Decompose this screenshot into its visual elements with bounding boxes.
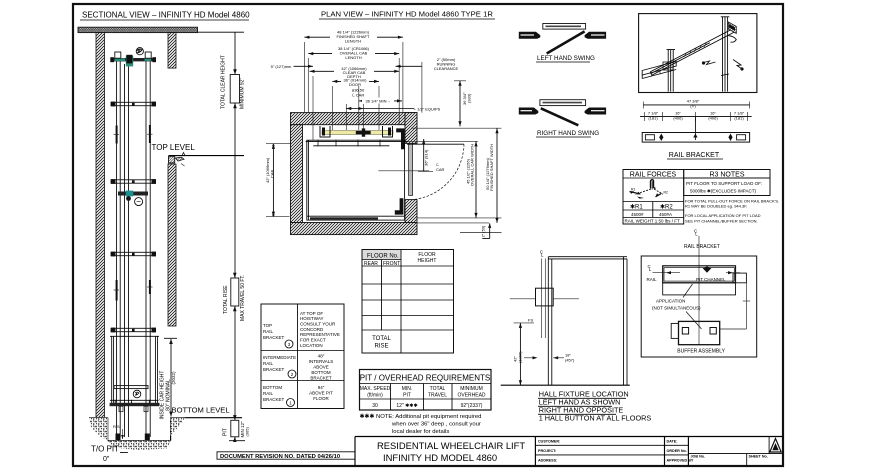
svg-text:PROJECT:: PROJECT: [538, 449, 556, 453]
svg-text:BOTTOM: BOTTOM [263, 385, 282, 390]
svg-text:BRACKET: BRACKET [263, 367, 285, 372]
svg-text:(933): (933) [467, 93, 472, 103]
svg-text:ABOVE PIT: ABOVE PIT [309, 391, 333, 396]
svg-text:TOP LEVEL: TOP LEVEL [152, 143, 196, 152]
svg-text:(181): (181) [734, 116, 744, 121]
svg-text:(ft/min): (ft/min) [367, 393, 383, 399]
svg-text:PIT FLOOR TO SUPPORT LOAD OF:: PIT FLOOR TO SUPPORT LOAD OF: [686, 181, 762, 186]
svg-text:DOOR: DOOR [349, 82, 361, 87]
svg-text:(406): (406) [673, 116, 683, 121]
svg-text:R1: R1 [631, 188, 636, 192]
svg-text:FLOOR: FLOOR [313, 396, 329, 401]
svg-text:BRACKET: BRACKET [263, 397, 285, 402]
svg-text:TOTAL RISE: TOTAL RISE [223, 285, 229, 314]
svg-text:30: 30 [372, 403, 378, 409]
svg-text:DOCUMENT REVISION NO. DATED: DOCUMENT REVISION NO. DATED 04/26/10 [220, 454, 340, 460]
svg-text:R2: R2 [664, 191, 669, 195]
svg-text:TRAVEL: TRAVEL [428, 393, 447, 399]
svg-text:RAIL FORCES: RAIL FORCES [630, 172, 677, 179]
svg-text:DATE:: DATE: [667, 440, 678, 444]
svg-text:REAR: REAR [364, 261, 378, 267]
svg-text:ADDRESS:: ADDRESS: [538, 459, 557, 463]
svg-text:TOTAL: TOTAL [372, 336, 391, 342]
svg-text:OVERALL CAR WIDTH: OVERALL CAR WIDTH [470, 144, 475, 186]
svg-text:MAX. SPEED: MAX. SPEED [360, 386, 391, 392]
svg-text:PIT: PIT [222, 428, 228, 436]
svg-text:SECTIONAL VIEW – INFINITY: SECTIONAL VIEW – INFINITY HD Model 4860 [82, 11, 250, 20]
svg-text:R1 MAY BE DOUBLED eg. 944.3F: R1 MAY BE DOUBLED eg. 944.3F. [685, 204, 747, 209]
svg-text:5000lbs ✱(EXCLUDES IMPACT): 5000lbs ✱(EXCLUDES IMPACT) [690, 189, 756, 194]
svg-text:CUSTOMER:: CUSTOMER: [538, 440, 560, 444]
svg-text:450#A: 450#A [659, 212, 672, 217]
svg-text:INTERVALS: INTERVALS [309, 359, 334, 364]
svg-text:T/O PIT: T/O PIT [91, 445, 119, 454]
svg-text:RAIL BRACKET: RAIL BRACKET [669, 152, 720, 159]
svg-text:✱✱✱ NOTE: Additional pit e: ✱✱✱ NOTE: Additional pit equipment requi… [360, 413, 482, 420]
svg-text:FINISHED SHAFT WIDTH: FINISHED SHAFT WIDTH [489, 144, 494, 191]
svg-text:BOTTOM LEVEL: BOTTOM LEVEL [172, 406, 230, 415]
svg-text:CONSULT YOUR: CONSULT YOUR [300, 321, 336, 326]
svg-text:RAIL: RAIL [263, 329, 274, 334]
svg-text:when over 36" deep , consu: when over 36" deep , consult your [391, 422, 481, 428]
svg-text:RAIL BRACKET: RAIL BRACKET [684, 244, 720, 250]
svg-text:REPRESENTATIVE: REPRESENTATIVE [300, 332, 340, 337]
svg-text:INFINITY HD MODEL 4860: INFINITY HD MODEL 4860 [383, 452, 497, 463]
svg-text:RAIL: RAIL [647, 277, 658, 282]
svg-text:(457): (457) [565, 358, 575, 363]
svg-text:APPROVED BY: APPROVED BY [667, 459, 694, 463]
svg-text:1 HALL BUTTON AT ALL FLOO: 1 HALL BUTTON AT ALL FLOORS [539, 414, 652, 423]
svg-text:HEIGHT: HEIGHT [418, 258, 437, 264]
svg-text:FOR EXACT: FOR EXACT [300, 338, 326, 343]
svg-text:MIN.: MIN. [402, 386, 413, 392]
svg-text:HOISTWAY: HOISTWAY [300, 316, 324, 321]
svg-text:36 1/4" MIN→: 36 1/4" MIN→ [366, 98, 391, 103]
svg-text:FLOOR No.: FLOOR No. [367, 254, 399, 260]
svg-text:RAIL WEIGHT 1 50 lbs / FT: RAIL WEIGHT 1 50 lbs / FT [625, 219, 681, 224]
svg-text:4500#: 4500# [631, 212, 644, 217]
svg-text:RISE: RISE [374, 344, 388, 350]
svg-text:APPLICATION: APPLICATION [656, 299, 685, 304]
svg-text:12" ✱✱✱: 12" ✱✱✱ [396, 403, 417, 409]
svg-text:ABOVE: ABOVE [313, 365, 329, 370]
svg-text:48": 48" [318, 354, 325, 359]
svg-text:CLEARANCE: CLEARANCE [434, 66, 459, 71]
svg-text:BOTTOM: BOTTOM [311, 370, 330, 375]
svg-text:BUFFER ASSEMBLY: BUFFER ASSEMBLY [677, 349, 725, 355]
svg-text:(2032): (2032) [171, 371, 176, 385]
svg-text:TOP: TOP [263, 323, 272, 328]
svg-text:JOB No.: JOB No. [691, 455, 706, 459]
svg-text:TOTAL CLEAR HEIGHT: TOTAL CLEAR HEIGHT [221, 55, 227, 109]
svg-text:SHEET No.: SHEET No. [749, 455, 768, 459]
svg-text:5" (127)mm: 5" (127)mm [271, 64, 292, 69]
svg-text:92"(2337): 92"(2337) [461, 403, 483, 409]
svg-text:(305): (305) [245, 426, 250, 436]
svg-text:RIGHT HAND SWING: RIGHT HAND SWING [537, 130, 599, 137]
svg-text:FS: FS [528, 318, 533, 323]
svg-text:LOCATION: LOCATION [300, 343, 323, 348]
svg-text:MINIMUM: MINIMUM [460, 386, 483, 392]
svg-text:CAR: CAR [436, 167, 445, 172]
svg-text:CAB: CAB [270, 169, 275, 178]
svg-text:(Y): (Y) [690, 104, 696, 109]
svg-text:(181): (181) [648, 116, 658, 121]
svg-text:PIT: PIT [403, 393, 411, 399]
svg-text:(1066): (1066) [518, 351, 523, 363]
svg-text:LENGTH: LENGTH [345, 39, 361, 44]
svg-text:CONCORD: CONCORD [300, 327, 324, 332]
svg-text:PIT CHANNEL: PIT CHANNEL [696, 277, 726, 282]
svg-text:ORDER No.: ORDER No. [667, 449, 687, 453]
svg-text:OVERHEAD: OVERHEAD [457, 393, 485, 399]
svg-text:FOR LOCAL APPLICATION OF PIT L: FOR LOCAL APPLICATION OF PIT LOAD [685, 213, 761, 218]
svg-text:LEFT HAND SWING: LEFT HAND SWING [537, 55, 595, 62]
svg-text:INTERMEDIATE: INTERMEDIATE [263, 355, 296, 360]
svg-text:PIT / OVERHEAD REQUIREMENTS: PIT / OVERHEAD REQUIREMENTS [360, 374, 491, 383]
svg-text:SEE PIT CHANNEL/BUFFER SECTION: SEE PIT CHANNEL/BUFFER SECTION. [685, 219, 758, 224]
svg-text:(NOT SIMULTANEOUS): (NOT SIMULTANEOUS) [652, 306, 701, 311]
svg-text:MAX TRAVEL 50 FT.: MAX TRAVEL 50 FT. [240, 275, 246, 321]
svg-text:ℒ CAR: ℒ CAR [352, 93, 365, 98]
svg-text:RAIL: RAIL [263, 391, 274, 396]
svg-text:BRACKET: BRACKET [263, 335, 285, 340]
svg-text:BRACKET: BRACKET [310, 376, 332, 381]
svg-text:PLAN VIEW – INFINITY HD M: PLAN VIEW – INFINITY HD Model 4860 TYPE … [321, 10, 493, 19]
svg-text:2" (50): 2" (50) [481, 225, 486, 238]
svg-text:LENGTH: LENGTH [345, 55, 361, 60]
svg-text:94": 94" [318, 385, 325, 390]
svg-text:MINIMUM 92": MINIMUM 92" [240, 78, 246, 109]
svg-text:(406): (406) [708, 116, 718, 121]
svg-text:✱R1: ✱R1 [630, 204, 643, 211]
svg-text:FRONT: FRONT [383, 261, 400, 267]
svg-text:0": 0" [103, 456, 110, 463]
svg-text:36" (914): 36" (914) [424, 149, 429, 166]
svg-text:R3 NOTES: R3 NOTES [709, 172, 744, 179]
svg-text:R.S: R.S [113, 424, 120, 429]
svg-text:+ 1/2" EQUIPS: + 1/2" EQUIPS [414, 107, 441, 112]
svg-text:RAIL: RAIL [263, 361, 274, 366]
svg-text:RESIDENTIAL WHEELCHAIR LIFT: RESIDENTIAL WHEELCHAIR LIFT [377, 440, 525, 451]
svg-text:local dealer for details: local dealer for details [392, 429, 449, 435]
svg-text:✱R2: ✱R2 [660, 204, 673, 211]
svg-text:TOTAL: TOTAL [430, 386, 446, 392]
